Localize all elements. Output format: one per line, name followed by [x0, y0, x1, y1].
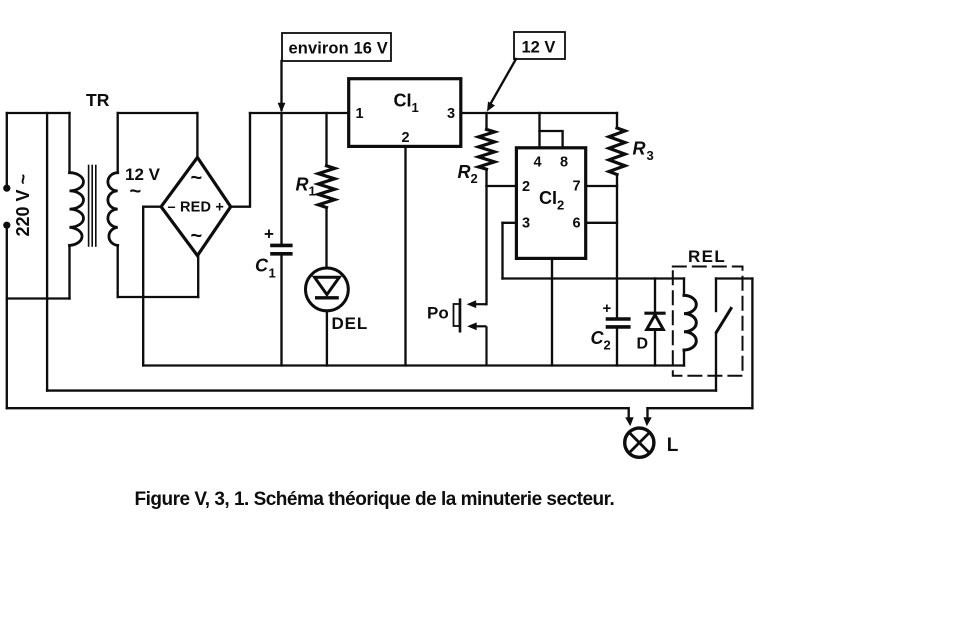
wire: switch top to right rail	[716, 277, 752, 279]
arrowhead on 12 V pointer	[487, 102, 495, 112]
resistor R2 zigzag	[479, 129, 495, 169]
transformer TR primary winding	[70, 173, 84, 246]
svg-text:~: ~	[191, 167, 203, 189]
transformer TR core	[88, 166, 90, 247]
IC CI1 box	[349, 79, 461, 147]
wire: bottom rail 3 right segment	[648, 407, 753, 409]
relay coil	[684, 295, 696, 350]
wire: R1 to DEL	[325, 208, 327, 269]
wire: output wire to relay coil	[503, 277, 685, 279]
wire: primary loop bottom	[7, 297, 70, 299]
wire: top supply wire to CI1 pin 1	[250, 112, 349, 114]
svg-text:D: D	[637, 336, 649, 353]
LED DEL circle	[306, 268, 349, 311]
svg-text:environ 16 V: environ 16 V	[289, 40, 388, 58]
wire: bridge AC bottom to secondary bottom	[197, 256, 199, 297]
svg-text:220 V ~: 220 V ~	[13, 174, 33, 237]
svg-text:7: 7	[573, 179, 581, 195]
svg-text:3: 3	[522, 216, 530, 232]
resistor R1 branch top lead	[325, 113, 327, 166]
wire: CI2 bottom pin to ground rail	[551, 258, 553, 365]
resistor R1 zigzag	[318, 166, 334, 208]
relay coil top lead	[683, 279, 685, 296]
wire: secondary loop bottom	[118, 296, 199, 298]
lamp L left lead	[628, 408, 630, 418]
svg-text:R: R	[633, 139, 646, 159]
capacitor C2 bottom lead	[616, 329, 618, 366]
wire: secondary top to bridge AC top	[196, 113, 198, 157]
arrowhead on lamp right lead	[643, 417, 651, 426]
svg-text:DEL: DEL	[332, 314, 369, 333]
LED DEL triangle	[315, 277, 340, 294]
svg-text:1: 1	[309, 184, 316, 199]
svg-text:1: 1	[269, 266, 276, 281]
lamp L circle	[625, 428, 654, 457]
svg-text:C: C	[255, 256, 269, 276]
capacitor C1 plates	[272, 244, 291, 248]
pushbutton Po top arrowhead	[467, 300, 477, 308]
svg-text:1: 1	[356, 106, 364, 122]
pushbutton Po plunger bar	[459, 298, 462, 332]
wire: secondary left upper	[117, 113, 119, 173]
wire: CI2 pin 8 stub	[540, 131, 563, 148]
wire: CI2 pin 7	[586, 185, 617, 187]
wire: left mains rail lower	[6, 229, 8, 408]
wire: R2 bottom to Po branch	[485, 169, 487, 304]
wire: 12 V pointer line	[490, 59, 517, 106]
bridge rectifier RED	[161, 157, 231, 255]
svg-text:2: 2	[402, 130, 410, 146]
wire: secondary left lower	[117, 245, 119, 297]
label box: environ 16 V	[282, 33, 391, 61]
node: mains terminal dot 2	[3, 222, 10, 229]
arrowhead on lamp left lead	[625, 417, 633, 426]
wire: environ 16 V pointer + C1 branch	[280, 61, 282, 110]
relay switch blade	[717, 309, 732, 333]
wire: primary loop right upper	[68, 113, 70, 173]
svg-text:2: 2	[604, 338, 611, 353]
svg-text:C: C	[591, 328, 605, 348]
capacitor C1 top lead	[280, 113, 282, 244]
svg-text:2: 2	[522, 179, 530, 195]
IC CI2 box	[516, 148, 585, 259]
svg-text:R: R	[296, 175, 309, 195]
wire: second mains line	[46, 113, 48, 391]
svg-text:~: ~	[130, 181, 142, 203]
wire: CI1 pin 2 to ground rail	[404, 146, 406, 365]
wire: CI2 pin 4 from supply	[538, 113, 540, 148]
lamp L cross	[629, 433, 649, 453]
svg-text:R: R	[458, 162, 471, 182]
capacitor C2 plates	[608, 317, 629, 321]
relay coil bottom lead	[683, 350, 685, 366]
svg-text:+: +	[603, 300, 612, 317]
wire: Po bottom to ground rail	[485, 326, 487, 365]
wire: primary loop top	[7, 112, 70, 114]
wire: R3 bottom through pins 7,6 down to C2	[616, 175, 618, 318]
pushbutton Po bottom arrowhead	[467, 322, 477, 330]
wire: bridge minus lead	[143, 207, 161, 366]
wire: CI2 pin 3	[503, 222, 517, 224]
arrowhead on environ 16 V pointer	[278, 103, 286, 113]
svg-text:Figure V, 3, 1. Schéma théoriq: Figure V, 3, 1. Schéma théorique de la m…	[135, 489, 615, 510]
svg-text:3: 3	[447, 106, 455, 122]
svg-text:2: 2	[471, 171, 478, 186]
svg-text:+: +	[264, 225, 274, 244]
relay switch top contact	[715, 279, 717, 312]
svg-text:3: 3	[647, 148, 654, 163]
LED DEL cathode bar	[317, 296, 337, 299]
svg-text:REL: REL	[688, 247, 726, 266]
wire: DEL to ground rail	[326, 311, 328, 366]
svg-text:Po: Po	[427, 304, 449, 323]
wire: bottom rail 3 left segment	[7, 407, 628, 409]
wire: primary loop right lower	[68, 245, 70, 298]
svg-text:TR: TR	[86, 90, 110, 110]
pushbutton Po bottom arrow shaft	[473, 325, 487, 327]
wire: CI2 pin 6	[586, 222, 617, 224]
transformer TR secondary winding	[108, 173, 118, 246]
wire: secondary loop top	[118, 112, 198, 114]
diode D top lead	[654, 279, 656, 314]
wire: left mains rail upper	[6, 113, 8, 185]
wire: bottom rail 2	[47, 389, 716, 391]
wire: CI2 pin 3 riser	[501, 223, 503, 279]
svg-text:– RED +: – RED +	[168, 200, 225, 216]
diode D triangle	[647, 315, 664, 330]
svg-text:6: 6	[573, 216, 581, 232]
capacitor C1 bottom lead	[280, 256, 282, 366]
diode D bottom lead	[654, 330, 656, 366]
resistor R3 top lead	[616, 113, 618, 128]
resistor R2 top lead	[485, 113, 487, 129]
svg-text:~: ~	[191, 225, 203, 247]
node: mains terminal dot 1	[3, 185, 10, 192]
wire: right rail	[751, 279, 753, 409]
pushbutton Po cap rectangle	[454, 304, 460, 326]
wire: CI2 pin 2	[487, 185, 517, 187]
relay switch bottom contact	[715, 333, 717, 391]
svg-text:4: 4	[534, 155, 542, 171]
svg-text:12 V: 12 V	[522, 39, 556, 57]
wire: ground rail 1	[143, 364, 684, 366]
relay REL dashed box	[673, 267, 743, 376]
wire: CI1 pin 3 output	[461, 112, 617, 114]
diode D cathode bar	[646, 312, 664, 315]
label box: 12 V	[514, 32, 565, 59]
lamp L right lead	[646, 408, 648, 418]
resistor R3 zigzag	[609, 128, 625, 175]
wire: bridge plus lead	[231, 113, 250, 207]
svg-text:L: L	[667, 435, 679, 456]
pushbutton Po top arrow shaft	[473, 303, 487, 305]
svg-text:8: 8	[560, 155, 568, 171]
